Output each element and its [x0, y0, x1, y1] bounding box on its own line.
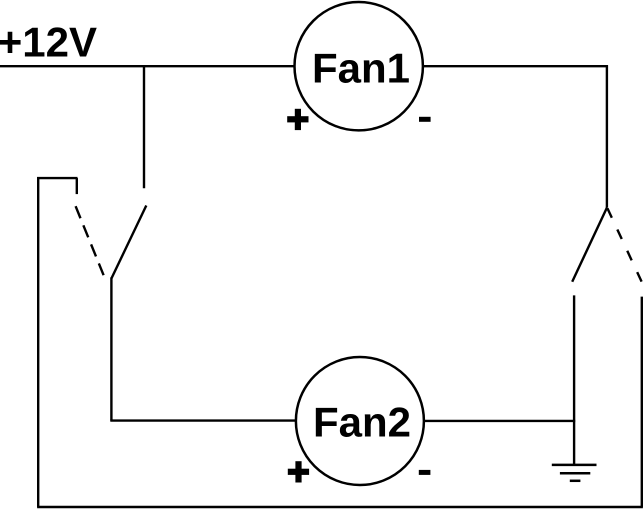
fan M1 circle — [295, 2, 423, 130]
fan M1 plus terminal mark — [287, 109, 308, 130]
wire: Fan2 minus terminal to ground junction — [424, 420, 575, 422]
fan M1 minus terminal mark — [419, 117, 431, 122]
wire: bracket horizontal at left (NC contact feed) — [37, 177, 77, 179]
fan M2 minus terminal mark — [419, 470, 431, 475]
svg-text:Fan1: Fan1 — [312, 45, 410, 92]
wire: +12V rail from left edge to Fan1 left terminal — [0, 65, 295, 67]
wire: switch S2 right contact down to bottom rail — [641, 297, 643, 507]
switch S2 alternate throw (dashed) — [607, 208, 641, 281]
wire: NC contact stub of switch S1 — [76, 178, 78, 194]
wire: switch S1 pole down to Fan2 level — [110, 278, 112, 421]
switch S2 arm (solid) — [572, 208, 607, 282]
wire: horizontal to Fan2 plus terminal — [110, 419, 296, 421]
svg-text:Fan2: Fan2 — [313, 399, 411, 446]
wire: right feed down to switch S2 common — [606, 65, 608, 207]
wire: bottom rail — [37, 506, 643, 508]
wire: Fan1 right terminal to top-right corner — [423, 65, 608, 67]
fan M2 circle — [296, 357, 424, 485]
fan M2 plus terminal mark — [288, 461, 309, 482]
wire: left outer vertical from bracket down to bottom rail — [37, 177, 39, 507]
svg-text:+12V: +12V — [0, 19, 97, 66]
wire: branch from +12V rail down to switch S1 contact — [143, 65, 145, 188]
ground symbol — [552, 465, 597, 481]
switch S1 arm (solid) — [111, 206, 146, 279]
wire: switch S2 left contact down through Fan2 junction to ground — [573, 295, 575, 464]
switch S1 alternate throw (dashed) — [76, 206, 104, 275]
